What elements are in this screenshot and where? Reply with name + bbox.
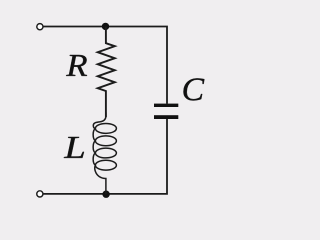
inductor L1 coil loops [93,113,116,195]
node bottom junction [102,191,109,198]
capacitor C1 bottom plate [154,115,178,119]
label L [64,137,84,158]
resistor R1 zigzag with leads [98,27,115,118]
label C [183,78,204,100]
terminal bottom-left open circle [37,191,43,197]
terminal top-left open circle [37,24,43,30]
node top junction [102,23,109,30]
capacitor C1 top plate [154,104,178,107]
wire bottom rail from capacitor down and left to terminal [43,119,168,194]
label R [66,55,87,76]
wire top rail from terminal to right corner and down to capacitor [43,26,168,104]
